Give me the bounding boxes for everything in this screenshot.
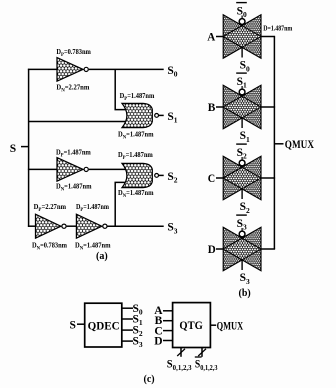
svg-text:(b): (b) — [239, 288, 251, 299]
slash on S0123bar bus — [198, 349, 206, 356]
wire TG-A bottom stub — [241, 47, 243, 57]
wire U2 output to gate G2 — [89, 168, 126, 170]
TG-A center rhombus overlap — [223, 26, 261, 48]
wire U4 output to S3 — [108, 225, 164, 227]
wire branch from S0 line down to gate G1 — [115, 69, 126, 109]
TG-A gate bubble — [239, 19, 245, 25]
svg-text:S: S — [70, 320, 76, 332]
svg-text:DN=0.783nm: DN=0.783nm — [32, 242, 67, 252]
wire TG-D bottom stub — [241, 260, 243, 270]
wire D into QTG — [163, 340, 173, 342]
wire S into QDEC — [77, 323, 85, 325]
svg-text:DP=1.487nm: DP=1.487nm — [56, 149, 91, 159]
wire QDEC output S1 — [122, 318, 133, 320]
svg-text:S3: S3 — [167, 222, 177, 236]
overbar of Sbar_0 — [236, 2, 247, 4]
inverter U3 triangle — [36, 214, 61, 238]
svg-text:S: S — [10, 143, 16, 155]
svg-text:DN=1.487nm: DN=1.487nm — [118, 131, 154, 141]
transmission gate TG-B group — [208, 73, 275, 144]
svg-text:D=1.487nm: D=1.487nm — [263, 25, 292, 33]
block QTG box — [173, 303, 211, 348]
TG-B center rhombus overlap — [223, 96, 261, 118]
svg-text:DP=0.783nm: DP=0.783nm — [56, 48, 91, 58]
svg-text:QMUX: QMUX — [285, 139, 315, 151]
U2 output bubble — [84, 167, 88, 171]
transmission gate TG-A group — [207, 3, 292, 74]
svg-text:D: D — [208, 244, 216, 256]
transmission gate TG-D group — [208, 215, 275, 286]
svg-text:DN=1.487nm: DN=1.487nm — [118, 189, 154, 199]
svg-text:DN=2.27nm: DN=2.27nm — [56, 84, 89, 94]
wire QMUX stub — [274, 143, 283, 145]
U1 output bubble — [84, 67, 88, 71]
wire G2 lower input branch from S3 line — [115, 182, 126, 226]
TG-A left triangle — [223, 15, 261, 59]
svg-text:S0: S0 — [167, 65, 177, 79]
wire Sbar_1 stub — [241, 86, 243, 97]
svg-text:QDEC: QDEC — [88, 320, 120, 332]
wire D input — [216, 248, 223, 250]
TG-D center rhombus overlap — [223, 238, 261, 260]
wire Sbar_0 stub — [241, 16, 243, 27]
TG-C left triangle — [223, 156, 261, 200]
svg-text:QMUX: QMUX — [217, 320, 244, 332]
wire G1 lower input from rail — [29, 121, 126, 123]
wire TG-C bottom stub — [241, 189, 243, 199]
G1 output bubble — [155, 114, 159, 118]
inverter U2 triangle — [57, 158, 83, 182]
wire TG-B output — [261, 106, 275, 108]
wire Sbar_2 stub — [241, 157, 243, 168]
svg-text:B: B — [208, 102, 216, 114]
wire QDEC output S0 — [122, 307, 133, 309]
wire TG-A output — [261, 36, 275, 38]
svg-text:S0,1,2,3: S0,1,2,3 — [167, 358, 192, 372]
slash on S0123 bus — [177, 349, 185, 356]
wire TG-D output — [261, 248, 275, 250]
TG-B gate bubble — [239, 89, 245, 95]
svg-text:(a): (a) — [96, 251, 108, 262]
wire B input — [216, 106, 223, 108]
wire select bus S0123 into QTG bottom — [180, 348, 182, 357]
TG-D gate bubble — [239, 231, 245, 237]
svg-text:DP=1.487nm: DP=1.487nm — [118, 151, 153, 161]
inverter U4 triangle — [76, 214, 101, 238]
wire INV2 input — [28, 168, 58, 170]
wire TG-C output — [261, 177, 275, 179]
svg-text:(c): (c) — [144, 374, 155, 385]
svg-text:D: D — [154, 335, 162, 347]
svg-text:DP=1.487nm: DP=1.487nm — [76, 203, 109, 213]
G2 output bubble — [155, 174, 159, 178]
TG-B right triangle — [223, 85, 261, 129]
wire QMUX output of QTG — [210, 324, 216, 326]
wire QDEC output S2 — [122, 329, 133, 331]
svg-text:DN=1.487nm: DN=1.487nm — [56, 183, 92, 193]
svg-text:S3: S3 — [240, 272, 250, 286]
overbar of Sbar_1 — [236, 72, 247, 74]
block QDEC box — [85, 303, 122, 347]
wire main vertical rail — [28, 69, 30, 227]
TG-C right triangle — [223, 156, 261, 200]
TG-B left triangle — [223, 85, 261, 129]
svg-text:C: C — [208, 173, 215, 185]
TG-D right triangle — [223, 227, 261, 271]
wire QDEC output S3 — [122, 340, 133, 342]
svg-text:S1: S1 — [240, 130, 250, 144]
wire QMUX vertical rail — [273, 37, 275, 250]
U4 output bubble — [103, 224, 107, 228]
svg-text:S0,1,2,3: S0,1,2,3 — [195, 358, 218, 372]
gate G1 body — [122, 103, 152, 127]
TG-C center rhombus overlap — [223, 167, 261, 189]
wire S stub to rail — [21, 146, 29, 148]
wire B into QTG — [163, 320, 173, 322]
TG-A right triangle — [223, 15, 261, 59]
overbar of Sbar_2 — [236, 143, 247, 145]
transmission gate TG-C group — [208, 144, 275, 215]
wire C input — [216, 177, 223, 179]
svg-text:S2: S2 — [240, 201, 250, 215]
svg-text:QTG: QTG — [179, 320, 202, 332]
U3 output bubble — [62, 224, 66, 228]
inverter U1 triangle — [57, 58, 83, 82]
wire TG-B bottom stub — [241, 118, 243, 128]
wire A into QTG — [163, 310, 173, 312]
wire Sbar_3 stub — [241, 228, 243, 239]
wire U3 to U4 — [67, 225, 78, 227]
overbar of Sbar_0,1,2,3 — [195, 356, 202, 358]
overbar of Sbar_3 — [236, 214, 247, 216]
wire A input — [216, 36, 223, 38]
wire U1 output to S0 — [89, 68, 164, 70]
svg-text:DP=2.27nm: DP=2.27nm — [34, 203, 67, 213]
TG-C gate bubble — [239, 160, 245, 166]
wire INV1 input — [28, 68, 58, 70]
wire select bus S0123bar into QTG bottom — [201, 348, 203, 357]
svg-text:S1: S1 — [167, 111, 177, 125]
wire C into QTG — [163, 330, 173, 332]
wire G1 output — [159, 114, 164, 116]
TG-D left triangle — [223, 227, 261, 271]
svg-text:S0: S0 — [240, 60, 250, 74]
svg-text:A: A — [207, 32, 216, 44]
wire rail to INV3 — [28, 225, 37, 227]
svg-text:DP=1.487nm: DP=1.487nm — [120, 92, 155, 102]
wire G2 output — [159, 174, 164, 176]
gate G2 body — [122, 163, 152, 187]
svg-text:S2: S2 — [167, 171, 177, 185]
